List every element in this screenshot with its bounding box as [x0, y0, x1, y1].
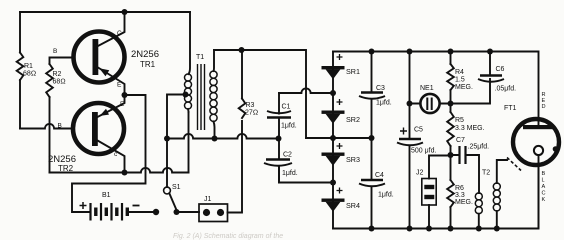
- svg-text:R1: R1: [24, 63, 33, 70]
- wire: R2 down and right to TR2 collector node: [49, 97, 51, 173]
- primary winding: [185, 74, 192, 81]
- wire: battery - to switch: [127, 211, 156, 213]
- rectifier string column: [332, 52, 334, 229]
- bottom rail: [333, 168, 539, 229]
- jack J2: [416, 156, 451, 229]
- svg-text:27Ω: 27Ω: [245, 110, 258, 117]
- lead label BLACK (vertical): [542, 171, 546, 203]
- svg-text:2N256: 2N256: [131, 49, 159, 60]
- resistor R1: [17, 53, 24, 81]
- svg-text:3.3 MEG.: 3.3 MEG.: [455, 125, 485, 132]
- node: R3 top: [239, 47, 245, 53]
- wire: S1 up to tap rail: [166, 139, 168, 188]
- svg-text:L: L: [542, 178, 545, 184]
- svg-text:SR3: SR3: [346, 155, 360, 164]
- svg-text:R5: R5: [455, 117, 464, 124]
- svg-text:TR1: TR1: [140, 60, 156, 69]
- capacitor C1: [267, 93, 297, 139]
- svg-text:1μfd.: 1μfd.: [376, 100, 392, 107]
- transistor TR2: [48, 95, 125, 173]
- flash tube FT1: [504, 105, 559, 229]
- node: TR2 collector junction: [122, 170, 128, 176]
- lead label RED (vertical): [542, 92, 546, 110]
- svg-text:S1: S1: [172, 184, 181, 191]
- neon lamp NE1: [410, 85, 451, 113]
- switch S1: [164, 184, 181, 215]
- svg-text:B1: B1: [102, 192, 111, 199]
- svg-text:1μfd.: 1μfd.: [378, 192, 394, 199]
- wire: emitters to battery + (down left loop): [72, 95, 146, 212]
- transistor TR1: [74, 12, 160, 95]
- wire: rail down to R1: [19, 12, 21, 53]
- wire: TR1 base to R2: [50, 58, 72, 65]
- wire: C1 top to SR1/SR2 node (hop over secondary riser): [279, 88, 333, 93]
- wire NE1 node to C6 bottom: [451, 79, 491, 104]
- svg-text:T1: T1: [196, 54, 204, 61]
- svg-text:.25μfd.: .25μfd.: [468, 144, 490, 151]
- rectifier SR3: [322, 143, 360, 166]
- svg-text:SR4: SR4: [346, 201, 360, 210]
- wire: S1 to jack J1: [177, 211, 200, 213]
- svg-text:C1: C1: [282, 104, 291, 111]
- svg-text:C7: C7: [456, 137, 465, 144]
- secondary top rail: [214, 50, 306, 138]
- C5 / NE1 column: [407, 49, 413, 55]
- wire: R2 node across to T1 primary bottom (hops): [50, 168, 189, 173]
- svg-text:R4: R4: [455, 69, 464, 76]
- secondary winding: [210, 71, 217, 78]
- node: emitters junction: [122, 92, 128, 98]
- svg-text:C: C: [117, 30, 122, 37]
- mid link: secondary riser to bridge and C3/C4 midpoint: [306, 137, 372, 139]
- svg-text:NE1: NE1: [420, 85, 434, 92]
- svg-text:MEG.: MEG.: [455, 199, 473, 206]
- capacitor C4: [359, 138, 394, 229]
- node: TR1 collector to rail: [122, 9, 128, 15]
- svg-text:Fig. 2 (A) Schematic diagram o: Fig. 2 (A) Schematic diagram of the: [173, 233, 283, 240]
- svg-text:MEG.: MEG.: [455, 84, 473, 91]
- svg-text:1.5: 1.5: [455, 77, 465, 84]
- svg-text:T2: T2: [482, 170, 490, 177]
- svg-text:C2: C2: [283, 152, 292, 159]
- capacitor C2: [264, 139, 298, 183]
- wire: R1 to TR2 base (hop over R2 lead): [19, 80, 21, 129]
- svg-text:K: K: [542, 197, 546, 203]
- svg-text:FT1: FT1: [504, 105, 517, 112]
- capacitor C5: [397, 127, 436, 229]
- svg-text:1μfd.: 1μfd.: [282, 170, 298, 177]
- svg-text:E: E: [117, 82, 122, 89]
- svg-text:SR2: SR2: [346, 115, 360, 124]
- resistor R3: [241, 50, 243, 99]
- capacitor C7: [451, 137, 490, 193]
- jack J1: [199, 196, 228, 222]
- mid rail: tap/S1 node to C1-C2 junction (hops over T1 lead and J1 riser): [167, 134, 279, 139]
- svg-text:C4: C4: [375, 172, 384, 179]
- svg-text:R6: R6: [455, 185, 464, 192]
- transformer T1: [167, 12, 217, 139]
- svg-text:3.3: 3.3: [455, 192, 465, 199]
- svg-text:B: B: [53, 48, 57, 55]
- svg-text:1μfd.: 1μfd.: [281, 123, 297, 130]
- center tap: [183, 92, 189, 98]
- svg-text:C5: C5: [414, 127, 423, 134]
- rectifier SR2: [322, 99, 360, 124]
- top-left supply rail: [20, 11, 190, 13]
- resistor R4: [450, 52, 452, 65]
- resistor R6: [447, 180, 454, 207]
- svg-text:SR1: SR1: [346, 67, 360, 76]
- HV top rail: [333, 52, 539, 128]
- svg-text:500 μfd.: 500 μfd.: [411, 148, 436, 155]
- svg-text:J2: J2: [416, 170, 424, 177]
- rectifier SR4: [322, 188, 360, 212]
- resistor R5: [450, 104, 452, 113]
- svg-text:R3: R3: [246, 102, 255, 109]
- svg-text:B: B: [542, 171, 546, 177]
- capacitor C3: [359, 49, 392, 139]
- svg-text:E: E: [120, 101, 125, 108]
- wire: J1 up to R3 (hop over mid rail): [228, 121, 243, 213]
- battery B1: [80, 192, 140, 221]
- R4/R5/R6 column: [448, 49, 454, 55]
- svg-text:C3: C3: [376, 85, 385, 92]
- svg-text:68Ω: 68Ω: [53, 79, 66, 86]
- svg-text:.05μfd.: .05μfd.: [495, 86, 517, 93]
- capacitor C6: [478, 49, 516, 93]
- svg-text:R2: R2: [53, 71, 62, 78]
- svg-text:J1: J1: [204, 196, 212, 203]
- trigger transformer T2: [475, 160, 507, 229]
- resistor R2: [46, 64, 53, 97]
- rectifier SR1: [322, 54, 360, 79]
- trigger lead (dashed) into flash tube: [507, 158, 521, 171]
- svg-text:C: C: [542, 191, 546, 197]
- svg-text:B: B: [58, 123, 62, 130]
- svg-text:C6: C6: [496, 66, 505, 73]
- wire: C2 bottom to SR3/SR4 node: [279, 166, 333, 183]
- svg-text:A: A: [542, 184, 546, 190]
- svg-text:68Ω: 68Ω: [23, 71, 36, 78]
- svg-text:D: D: [542, 104, 546, 110]
